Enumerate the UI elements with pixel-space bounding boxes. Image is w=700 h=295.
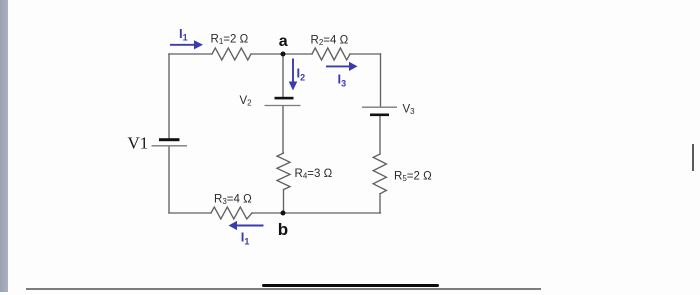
left sidebar strip — [0, 0, 8, 292]
battery V2 thin plate — [265, 105, 301, 107]
wire top-middle segment (R1 to R2 through node a) — [251, 53, 312, 55]
svg-text:I2: I2 — [297, 66, 306, 83]
svg-text:I1: I1 — [179, 26, 188, 42]
node b junction dot — [281, 211, 286, 216]
svg-text:R2=4 Ω: R2=4 Ω — [311, 35, 349, 48]
svg-text:R3=4 Ω: R3=4 Ω — [214, 194, 252, 207]
svg-text:R1=2 Ω: R1=2 Ω — [211, 34, 249, 47]
wire left upper segment — [168, 54, 170, 138]
bottom page edge line — [26, 288, 541, 290]
wire left lower segment — [168, 147, 170, 214]
battery V1 thin plate — [152, 145, 188, 147]
battery V1 thick plate — [159, 138, 180, 141]
battery V2 thick plate — [275, 97, 294, 100]
wire middle lower segment (R4 to node b) — [283, 190, 285, 213]
svg-text:a: a — [279, 33, 288, 50]
resistor R2 — [312, 48, 350, 60]
svg-text:b: b — [278, 220, 288, 239]
resistor R1 — [212, 48, 251, 60]
svg-text:I1: I1 — [241, 230, 250, 247]
node a junction dot — [281, 52, 286, 57]
wire middle upper segment (node a to V2) — [282, 54, 284, 97]
wire right middle segment (V3 to R5) — [379, 116, 381, 154]
wire top-right segment — [350, 53, 381, 55]
svg-text:V3: V3 — [403, 104, 416, 117]
resistor R5 — [373, 154, 386, 194]
battery V3 thick plate — [370, 114, 389, 117]
battery V3 thin plate — [362, 106, 397, 108]
current arrow I2 — [292, 59, 294, 82]
resistor R4 — [277, 153, 290, 190]
svg-text:R5=2 Ω: R5=2 Ω — [394, 171, 432, 184]
current arrow I3 — [326, 65, 349, 67]
current arrow I1 bottom (pointing left) — [237, 225, 264, 227]
wire middle segment (V2 to R4) — [282, 106, 284, 153]
wire bottom-right segment (R3 to right wire through node b) — [252, 212, 381, 214]
wire bottom-left segment — [169, 212, 211, 214]
svg-text:V2: V2 — [240, 95, 253, 108]
svg-text:V1: V1 — [128, 134, 149, 153]
current arrow I1 top — [170, 44, 194, 46]
wire right lower segment — [379, 194, 381, 213]
wire right upper segment — [380, 54, 382, 107]
svg-text:I3: I3 — [338, 72, 347, 89]
svg-text:R4=3 Ω: R4=3 Ω — [295, 168, 333, 181]
right small vertical tick — [692, 144, 694, 171]
wire top-left segment — [169, 53, 212, 55]
bottom black bar — [262, 284, 439, 288]
resistor R3 — [211, 207, 252, 219]
